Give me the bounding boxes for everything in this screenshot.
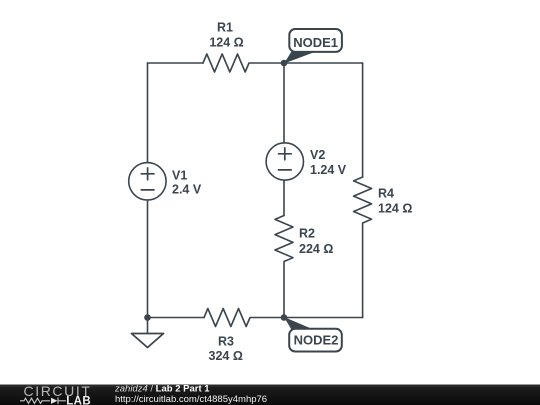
svg-text:R1: R1	[217, 20, 233, 34]
svg-text:V1: V1	[172, 169, 187, 183]
svg-text:324 Ω: 324 Ω	[209, 349, 243, 363]
svg-text:NODE2: NODE2	[294, 332, 339, 347]
svg-text:http://circuitlab.com/ct4885y4: http://circuitlab.com/ct4885y4mhp76	[115, 394, 267, 405]
svg-text:R2: R2	[299, 227, 315, 241]
svg-text:R3: R3	[218, 334, 234, 348]
svg-text:1.24 V: 1.24 V	[310, 163, 347, 177]
svg-text:V2: V2	[310, 148, 325, 162]
svg-text:124 Ω: 124 Ω	[209, 36, 243, 50]
svg-text:124 Ω: 124 Ω	[378, 202, 412, 216]
svg-text:224 Ω: 224 Ω	[299, 242, 333, 256]
svg-text:R4: R4	[378, 187, 394, 201]
svg-text:NODE1: NODE1	[293, 35, 338, 50]
svg-text:LAB: LAB	[66, 396, 91, 405]
svg-text:2.4 V: 2.4 V	[172, 182, 202, 196]
